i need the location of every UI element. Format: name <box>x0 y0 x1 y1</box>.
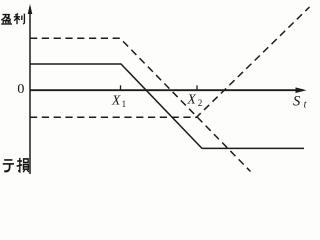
svg-text:0: 0 <box>17 82 24 97</box>
svg-text:t: t <box>304 100 307 111</box>
dashed short-call leg <box>30 38 251 171</box>
svg-text:S: S <box>293 94 301 110</box>
x-axis <box>30 89 303 91</box>
solid net payoff line (bear spread) <box>30 64 304 148</box>
label 盈利 (profit) drawn as strokes <box>1 14 24 25</box>
svg-text:2: 2 <box>198 98 203 108</box>
text labels <box>17 82 306 111</box>
svg-text:1: 1 <box>122 99 127 109</box>
svg-text:X: X <box>187 92 197 107</box>
亏 <box>3 160 14 171</box>
y-axis arrowhead <box>28 4 33 14</box>
tick X1 <box>120 85 122 90</box>
y-axis <box>29 7 31 174</box>
label 亏损 (loss) drawn as strokes <box>3 158 29 172</box>
损 <box>17 158 29 172</box>
svg-text:X: X <box>111 93 121 108</box>
tick X2 <box>196 85 198 90</box>
x-axis arrowhead <box>296 87 307 93</box>
dashed long-call leg <box>30 7 310 117</box>
盈 <box>1 15 12 24</box>
利 <box>14 14 25 25</box>
